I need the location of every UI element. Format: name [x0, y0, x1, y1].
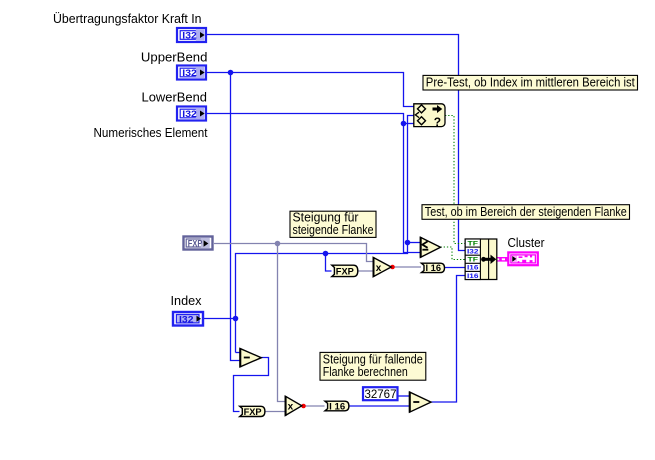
wire subtract output to bundle row5 — [431, 276, 465, 403]
svg-text:Pre-Test, ob Index im mittlere: Pre-Test, ob Index im mittleren Bereich … — [426, 75, 635, 90]
svg-text:I32: I32 — [467, 249, 479, 256]
wire Uebertragungsfaktor Kraft In to bundle row2 — [206, 35, 465, 251]
wire FXP terminal branch down to multiply 2 upper input — [278, 244, 286, 402]
svg-text:I 16: I 16 — [426, 263, 442, 273]
coercion dot multiply 2 — [301, 404, 306, 409]
node junction LowerBend at InRange — [401, 121, 407, 127]
svg-text:Cluster: Cluster — [508, 235, 546, 250]
svg-text:Test, ob im Bereich der steige: Test, ob im Bereich der steigenden Flank… — [425, 204, 627, 219]
terminal FXP greyed — [184, 237, 213, 250]
op conversion FXP 1 — [332, 265, 358, 276]
svg-text:x: x — [288, 402, 294, 413]
svg-text:I16: I16 — [467, 273, 479, 280]
wire FXP terminal to multiply 1 upper input — [214, 244, 374, 262]
svg-text:Numerisches Element: Numerisches Element — [94, 125, 208, 140]
op bundle node — [465, 239, 497, 280]
wire Index stub to LE upper input — [408, 242, 421, 244]
svg-text:FXP: FXP — [336, 267, 354, 277]
op multiply U4 — [373, 257, 392, 277]
svg-text:I32: I32 — [182, 68, 197, 78]
svg-text:Übertragungsfaktor Kraft In: Übertragungsfaktor Kraft In — [53, 11, 202, 26]
terminal Cluster indicator — [508, 252, 538, 265]
node junction UpperBend — [228, 70, 234, 76]
wire FXP convert 1 to multiply 1 lower input — [357, 270, 374, 272]
terminal I32 Index — [173, 312, 203, 326]
node junction Index to FXP1 — [323, 251, 329, 257]
wire FXP convert 2 to multiply 2 lower input — [265, 411, 286, 413]
svg-text:I32: I32 — [179, 314, 194, 324]
svg-text:TF: TF — [468, 240, 479, 247]
svg-text:?: ? — [434, 115, 441, 129]
svg-text:UpperBend: UpperBend — [141, 50, 208, 65]
wire boolean InRange? to bundle row1 — [445, 116, 465, 244]
wire Index branch down to FXP convert 1 — [326, 254, 332, 272]
svg-text:I16: I16 — [467, 265, 479, 272]
op multiply U5 — [285, 396, 302, 416]
terminal I32 UpperBend — [177, 66, 206, 80]
svg-text:x: x — [376, 263, 382, 274]
op Less-Equal comparison U2 — [420, 237, 441, 258]
svg-text:I32: I32 — [182, 109, 197, 119]
comment box Pre-Test — [423, 75, 638, 90]
wire boolean LE? to bundle row3 — [441, 247, 466, 260]
wire UpperBend to InRange upper input — [207, 73, 414, 107]
svg-text:FXP: FXP — [244, 407, 262, 417]
svg-text:TF: TF — [468, 257, 479, 264]
op conversion I16 2 — [325, 401, 349, 411]
node junction FXP wire — [275, 241, 281, 247]
terminal I32 Uebertragungsfaktor Kraft In — [177, 28, 206, 42]
svg-text:FXP: FXP — [188, 239, 203, 250]
svg-text:I32: I32 — [182, 30, 197, 40]
comment box Test steigende Flanke — [422, 204, 630, 219]
svg-text:Index: Index — [171, 293, 202, 308]
wire Index vertical branch up and across to InRange middle input — [236, 116, 415, 353]
wire multiply 2 to I16 convert 2 — [302, 405, 325, 407]
svg-text:32767: 32767 — [365, 389, 397, 401]
wire UpperBend branch down to decrement lower input — [231, 73, 241, 361]
node junction Index at LE input — [405, 240, 411, 246]
op decrement subtract U3 — [239, 348, 261, 367]
svg-text:steigende Flanke: steigende Flanke — [293, 222, 374, 237]
op In Range and Coerce U1 — [414, 104, 445, 129]
wire I16 convert 2 to subtract lower input — [349, 405, 410, 407]
comment box Steigung fuer fallende Flanke berechnen — [320, 351, 426, 380]
op subtract U6 — [409, 392, 431, 413]
wire LowerBend to LE lower input — [207, 114, 421, 253]
constant 32767 — [363, 387, 398, 401]
wire cluster pink dashed bundle to Cluster terminal — [496, 257, 508, 262]
op conversion FXP 2 — [240, 406, 265, 417]
wire Index branch to decrement upper input — [236, 352, 241, 354]
svg-text:Flanke berechnen: Flanke berechnen — [323, 364, 408, 379]
wire constant 32767 to subtract upper input — [399, 395, 410, 397]
wire decrement output loop to FXP convert 2 — [234, 358, 269, 412]
coercion dot multiply 1 — [390, 265, 395, 270]
wire LowerBend stub to InRange lower input — [404, 123, 415, 125]
svg-text:I 16: I 16 — [329, 401, 345, 411]
node junction Index — [233, 316, 239, 322]
wire I16 convert 1 to bundle row4 — [444, 267, 465, 269]
terminal I32 LowerBend — [177, 107, 206, 121]
comment box Steigung fuer steigende Flanke — [290, 210, 376, 238]
op conversion I16 1 — [421, 263, 444, 273]
svg-text:LowerBend: LowerBend — [142, 90, 208, 105]
wire multiply 1 to I16 convert 1 — [391, 266, 421, 268]
wire Index horizontal to junction — [204, 318, 236, 320]
